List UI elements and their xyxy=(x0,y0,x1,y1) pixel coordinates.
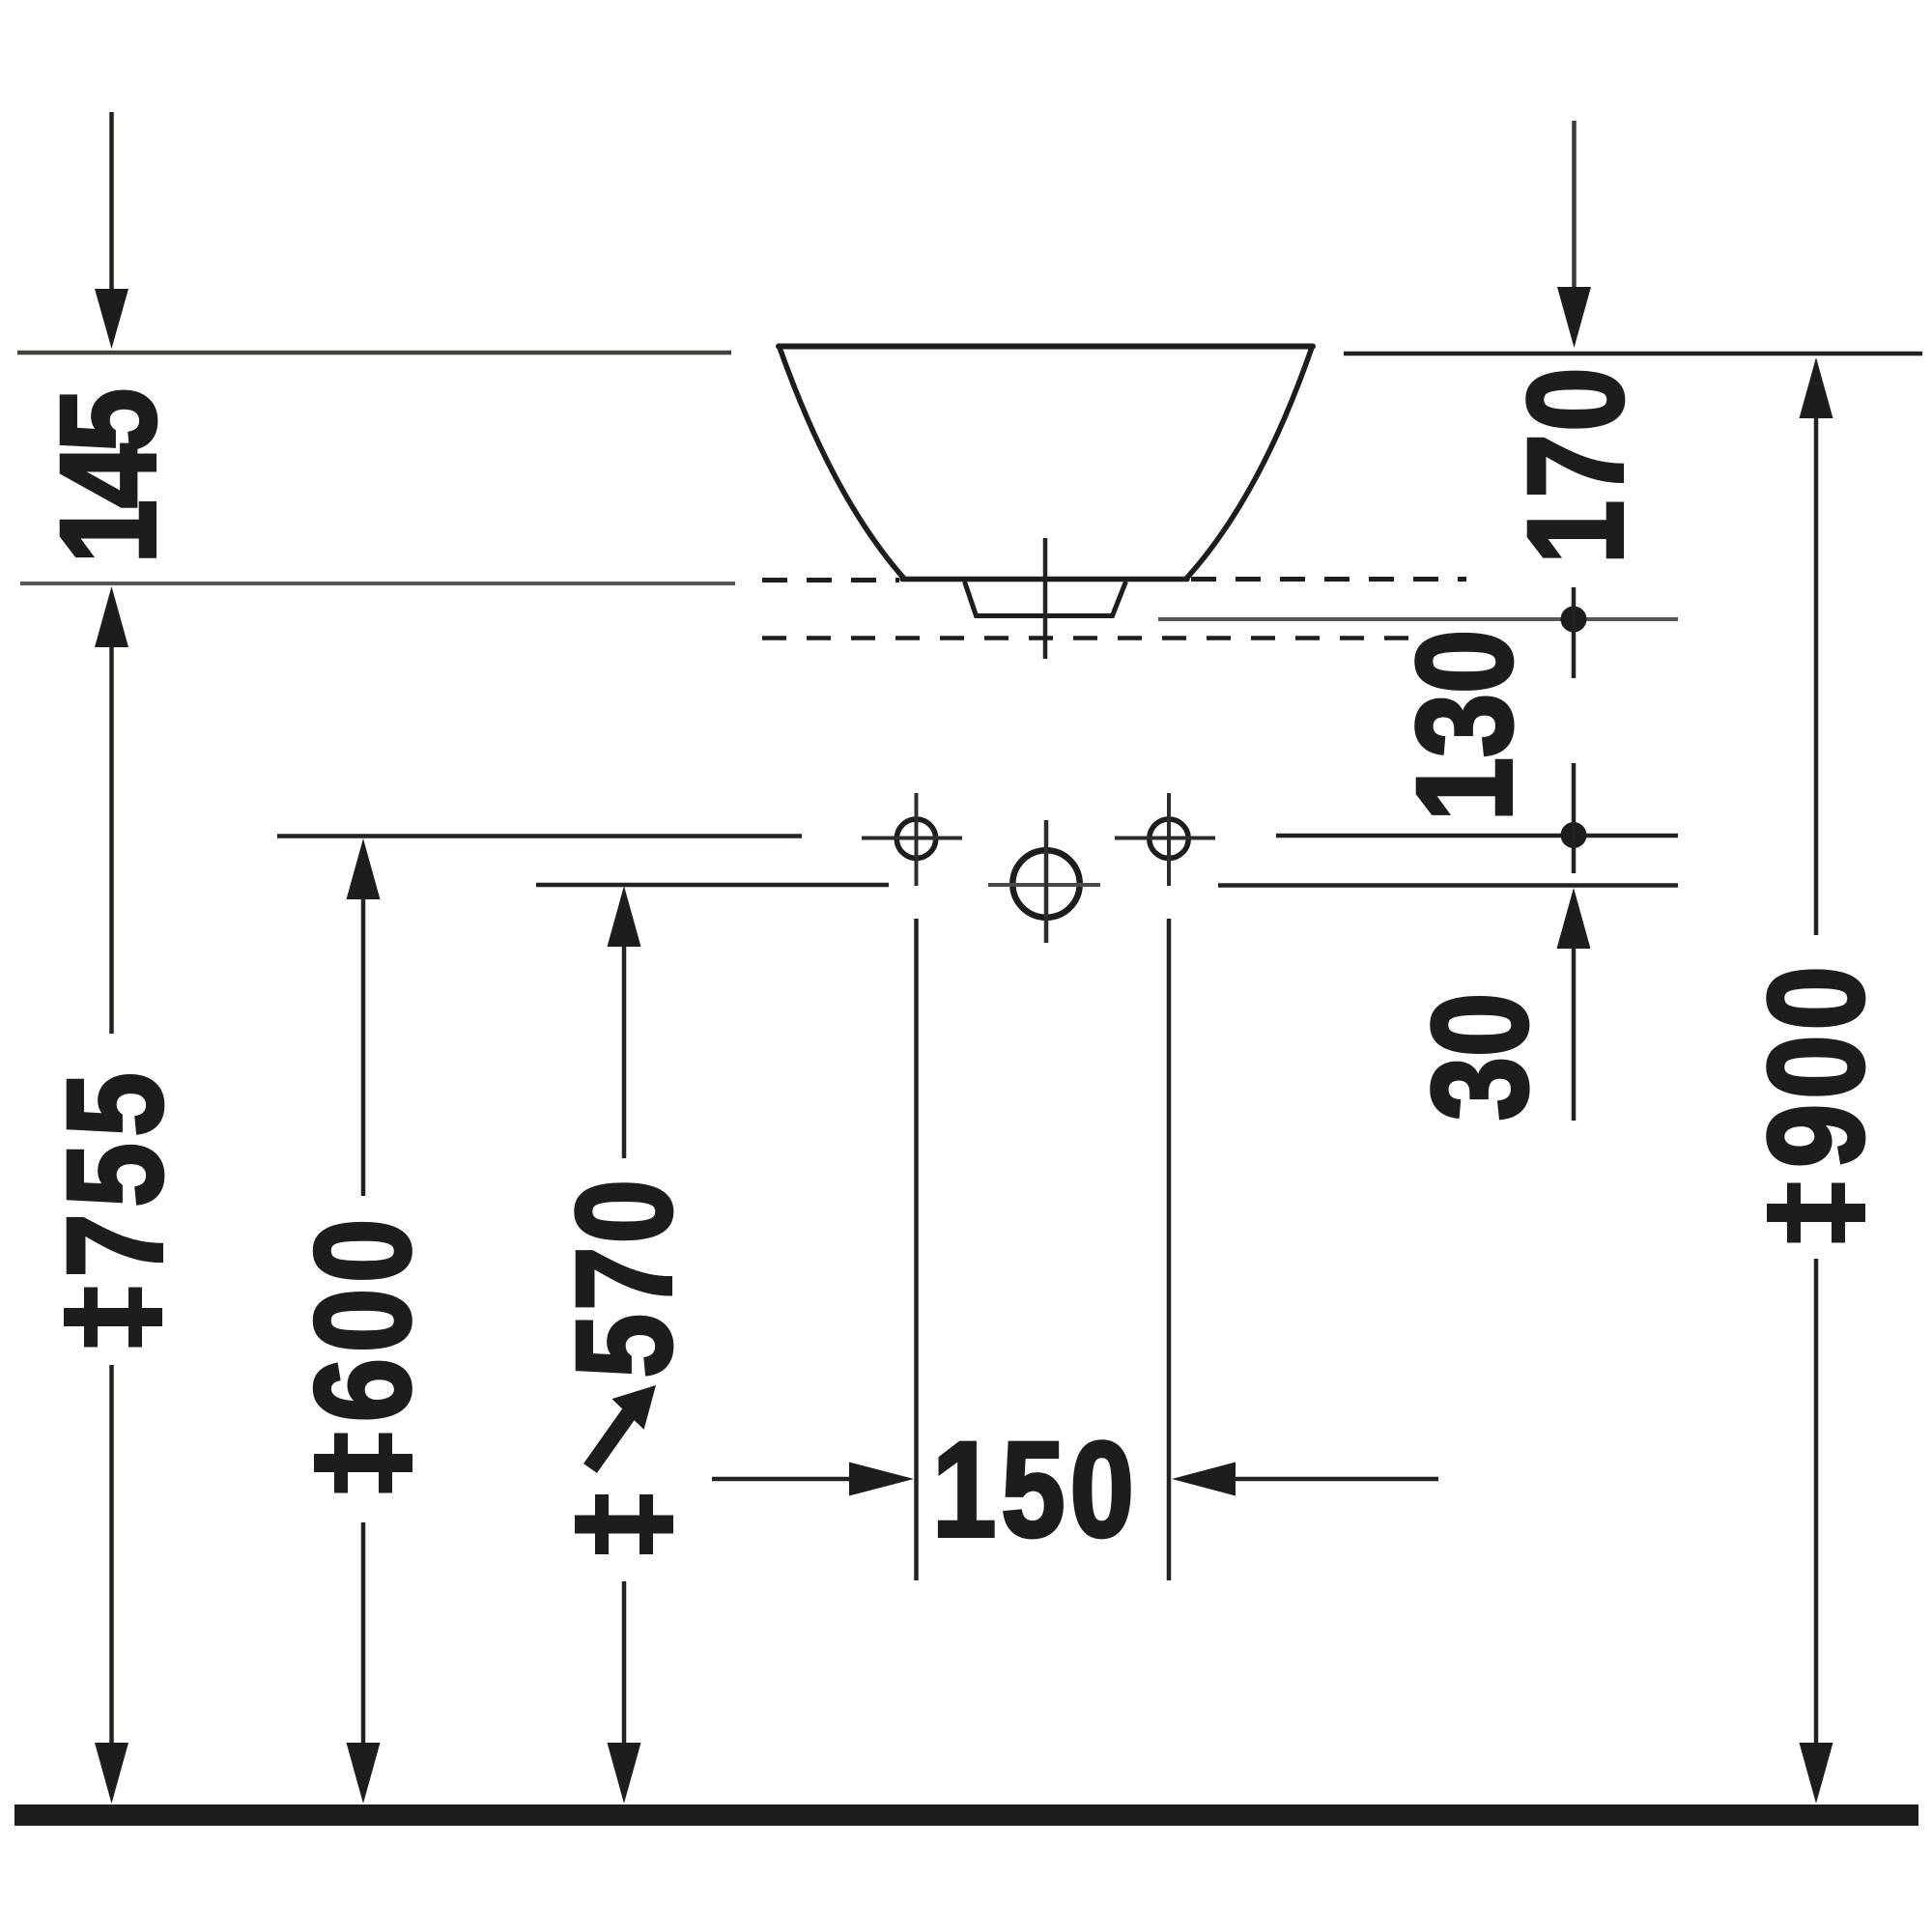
right faucet hole circle xyxy=(1150,819,1188,858)
dimension 170: vertical line with down arrow, top right xyxy=(1572,121,1577,290)
left faucet hole crosshair xyxy=(862,837,962,840)
hole centerline down, left xyxy=(914,919,919,1580)
vertical tick through faucet-line dot xyxy=(1572,763,1577,873)
svg-text:170: 170 xyxy=(1499,365,1651,564)
plus-minus symbol of 900 xyxy=(1767,1183,1865,1243)
svg-text:150: 150 xyxy=(932,1413,1139,1565)
mixer-hole lower line, right segment xyxy=(1218,883,1678,888)
center mixer hole crosshair xyxy=(988,883,1100,887)
dimension ±900 line xyxy=(1800,357,1833,418)
dimension ±755 line: up arrow at counter, shaft, down arrow at floor xyxy=(95,586,128,647)
plus-minus symbol of 600 xyxy=(314,1434,412,1493)
right faucet hole crosshair xyxy=(1115,837,1215,840)
hole centerline down, right xyxy=(1167,919,1172,1580)
dimension 150: right arrow xyxy=(1172,1463,1236,1496)
basin centerline xyxy=(1043,538,1048,659)
svg-text:570: 570 xyxy=(548,1177,699,1378)
svg-text:30: 30 xyxy=(1404,993,1555,1121)
svg-text:130: 130 xyxy=(1388,630,1540,822)
drain tailpiece trapezoid xyxy=(965,582,1126,616)
counter-top dashed line, left of basin xyxy=(762,578,899,582)
svg-text:600: 600 xyxy=(286,1213,438,1422)
faucet-hole upper line, right segment xyxy=(1276,834,1678,838)
mixer-hole lower line, left segment xyxy=(536,883,889,888)
counter-top dashed line, right of basin xyxy=(1191,577,1466,582)
left faucet hole circle xyxy=(896,819,935,858)
extension line, rim level, left xyxy=(17,351,731,355)
dimension ±600 line xyxy=(347,838,381,899)
svg-text:755: 755 xyxy=(39,1066,190,1278)
faucet-hole upper line, left segment xyxy=(277,834,802,838)
vertical tick through drain-line dot xyxy=(1572,587,1577,678)
center mixer hole circle xyxy=(1012,850,1079,917)
adjustable-height arrow glyph of 570 xyxy=(590,1385,656,1468)
plus-minus symbol of 755 xyxy=(64,1288,162,1348)
floor line xyxy=(14,1804,1918,1826)
svg-text:145: 145 xyxy=(32,391,184,564)
dimension ±570 line xyxy=(608,886,641,947)
extension line, rim level, right xyxy=(1344,352,1922,356)
dimension 30: up arrow and shaft xyxy=(1557,888,1591,949)
counter-top extension line (gray, left) xyxy=(20,582,735,585)
dimension 145: vertical line with down arrow, top xyxy=(109,112,114,292)
extension line under drain (gray) xyxy=(1158,617,1678,621)
dot terminator on drain line xyxy=(1561,607,1587,633)
svg-text:900: 900 xyxy=(1740,961,1891,1168)
dot terminator on faucet-hole line xyxy=(1561,822,1587,848)
plus-minus symbol of 570 xyxy=(575,1494,673,1554)
dimension 150: left arrow xyxy=(712,1477,852,1482)
washbasin bowl outline xyxy=(779,347,1313,580)
lower dashed line (counter underside) xyxy=(762,636,1418,640)
